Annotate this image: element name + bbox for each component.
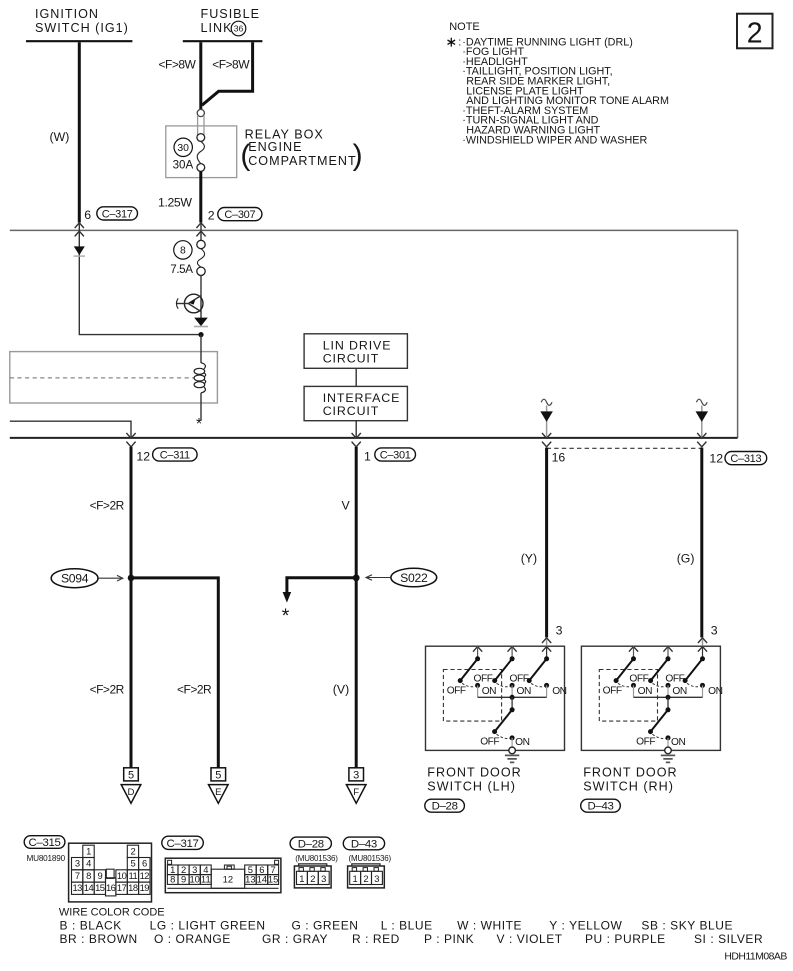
fusible link right wire: [202, 42, 253, 105]
svg-text:OFF: OFF: [510, 674, 529, 685]
bottom switch (LH): [511, 697, 513, 710]
svg-text::: :: [458, 36, 461, 48]
svg-text:FRONT DOOR: FRONT DOOR: [583, 766, 677, 780]
svg-text:15: 15: [95, 882, 105, 893]
svg-text:9: 9: [97, 870, 102, 881]
svg-text:5: 5: [128, 770, 134, 782]
svg-text:<F>2R: <F>2R: [90, 683, 125, 697]
connector D-43 ref: [581, 799, 621, 812]
svg-text:10: 10: [117, 870, 127, 881]
svg-text:3: 3: [353, 770, 359, 782]
svg-text:SWITCH (LH): SWITCH (LH): [427, 780, 516, 794]
ignition switch bar: [26, 40, 132, 42]
svg-text:LINK: LINK: [201, 21, 233, 35]
svg-text:16: 16: [106, 882, 116, 893]
wire to fuse: [200, 223, 202, 241]
ECU box bottom edge (bus 2): [10, 437, 738, 439]
dashed link line: [10, 377, 194, 379]
svg-text:GR : GRAY: GR : GRAY: [262, 932, 328, 946]
svg-text:G : GREEN: G : GREEN: [292, 918, 359, 932]
svg-text:Y : YELLOW: Y : YELLOW: [549, 918, 622, 932]
arrow S094 to junction: [99, 577, 123, 579]
junction dot: [198, 332, 203, 337]
svg-text:1: 1: [364, 449, 371, 463]
wire to coil: [200, 335, 202, 363]
ECU box right edge: [737, 230, 739, 438]
wire to pin 12: [10, 421, 131, 438]
internal wire A with diode to bus2: [546, 406, 548, 438]
svg-text:B : BLACK: B : BLACK: [60, 918, 122, 932]
svg-text:(Y): (Y): [521, 552, 537, 566]
connector D-28 label: [290, 837, 331, 850]
wire Y trunk: [545, 448, 548, 638]
svg-text:LIN DRIVE: LIN DRIVE: [323, 338, 392, 352]
svg-text:30: 30: [177, 143, 189, 154]
svg-text:C–307: C–307: [224, 209, 255, 221]
svg-text:(: (: [240, 139, 250, 172]
svg-text:SI : SILVER: SI : SILVER: [694, 932, 763, 946]
svg-text:(MU801536): (MU801536): [295, 854, 338, 863]
svg-text:OFF: OFF: [480, 737, 499, 748]
svg-text:10: 10: [189, 874, 199, 885]
connector D-43 label: [343, 837, 384, 850]
svg-text:16: 16: [552, 450, 566, 464]
wire W from ignition switch: [78, 42, 81, 222]
wire interface to pin 1: [355, 421, 357, 438]
bottom switch (RH): [667, 697, 669, 710]
svg-text:L : BLUE: L : BLUE: [381, 918, 433, 932]
svg-text:ON: ON: [515, 737, 529, 748]
svg-text:12: 12: [136, 449, 150, 463]
svg-text:3: 3: [75, 858, 80, 869]
internal wire B with diode to bus2: [701, 406, 703, 438]
svg-text:36: 36: [234, 24, 244, 34]
svg-text:CIRCUIT: CIRCUIT: [323, 351, 380, 365]
switch common line (LH): [478, 696, 547, 698]
svg-text:OFF: OFF: [636, 737, 655, 748]
connector C-315 drawing: [69, 843, 152, 902]
connector chevrons at switch top: [702, 637, 704, 646]
svg-text:V: V: [342, 499, 351, 513]
dashed actuation box: [443, 670, 501, 722]
svg-text:(MU801536): (MU801536): [349, 854, 392, 863]
splice S094: [51, 569, 98, 588]
switch column 1 (RH): [629, 647, 638, 652]
svg-text:1: 1: [86, 845, 91, 856]
svg-text:SB : SKY BLUE: SB : SKY BLUE: [641, 918, 733, 932]
svg-text:<F>2R: <F>2R: [177, 683, 212, 697]
svg-text:OFF: OFF: [629, 674, 648, 685]
connector chevrons wire W at bus1: [75, 223, 84, 228]
svg-text:FUSIBLE: FUSIBLE: [201, 7, 261, 21]
switch column 3 (LH): [546, 646, 548, 659]
svg-text:WIRE COLOR CODE: WIRE COLOR CODE: [59, 906, 165, 918]
svg-text:11: 11: [201, 874, 211, 885]
svg-text:4: 4: [86, 858, 91, 869]
wire 1.25W relay to connector: [199, 171, 202, 222]
svg-text:D: D: [128, 787, 135, 798]
svg-text:11: 11: [129, 870, 138, 881]
svg-text:F: F: [353, 787, 359, 798]
branch wire with arrow (DRL): [287, 578, 356, 593]
terminal 3F: [349, 768, 364, 781]
dashed actuation box: [599, 670, 657, 722]
svg-text:15: 15: [268, 874, 278, 885]
svg-text:OFF: OFF: [665, 674, 684, 685]
svg-text:CIRCUIT: CIRCUIT: [323, 404, 380, 418]
svg-text:17: 17: [117, 882, 127, 893]
connector chevrons A at bus2: [542, 433, 551, 438]
svg-text:ON: ON: [552, 686, 566, 697]
terminal 5E: [211, 768, 226, 781]
svg-text:D–43: D–43: [587, 801, 613, 813]
relay box: [166, 126, 237, 178]
branch wire to pin E: [131, 578, 218, 768]
svg-text:PU : PURPLE: PU : PURPLE: [585, 932, 666, 946]
svg-text:HDH11M08AB: HDH11M08AB: [724, 951, 787, 962]
LIN drive circuit box: [304, 334, 407, 369]
terminal 5D: [124, 768, 139, 781]
wire W inside ECU: [79, 223, 201, 335]
svg-text:R : RED: R : RED: [352, 932, 400, 946]
wire 12 trunk: [130, 447, 133, 768]
fusible link element: [197, 109, 204, 116]
svg-text:1.25W: 1.25W: [158, 196, 192, 210]
svg-text:W : WHITE: W : WHITE: [457, 918, 522, 932]
arrow S022 to junction: [366, 577, 390, 579]
svg-text:D–28: D–28: [298, 838, 324, 850]
svg-text:1: 1: [299, 873, 304, 884]
connector chevrons at switch top: [546, 637, 548, 646]
svg-text:3: 3: [711, 624, 718, 638]
svg-text:8: 8: [170, 874, 175, 885]
svg-text:C–315: C–315: [29, 837, 61, 849]
svg-text:<F>8W: <F>8W: [159, 58, 197, 72]
svg-text:*: *: [282, 605, 290, 627]
svg-text:INTERFACE: INTERFACE: [323, 391, 401, 405]
svg-text:13: 13: [245, 874, 255, 885]
svg-text:5: 5: [215, 770, 221, 782]
svg-text:E: E: [215, 787, 221, 798]
svg-text:FRONT DOOR: FRONT DOOR: [427, 766, 521, 780]
connector chevrons pin12 at bus2: [126, 433, 135, 438]
svg-text:IGNITION: IGNITION: [35, 7, 99, 21]
svg-text:): ): [353, 139, 363, 172]
svg-text:*: *: [196, 416, 202, 433]
switch column 2 (LH): [508, 647, 517, 652]
svg-text:13: 13: [72, 882, 82, 893]
ECU box top edge (bus 1): [10, 229, 738, 231]
svg-text:ON: ON: [638, 686, 652, 697]
svg-text:P : PINK: P : PINK: [424, 932, 474, 946]
svg-text:MU801890: MU801890: [27, 854, 66, 863]
svg-text:SWITCH (IG1): SWITCH (IG1): [35, 21, 129, 35]
svg-text:3: 3: [374, 873, 379, 884]
svg-text:NOTE: NOTE: [449, 21, 480, 33]
front door switch (RH) box: [581, 646, 720, 750]
svg-text:V : VIOLET: V : VIOLET: [497, 932, 563, 946]
svg-text:C–317: C–317: [167, 838, 199, 850]
wire G trunk: [700, 448, 703, 638]
wire between circuit boxes: [355, 368, 357, 386]
svg-text:C–313: C–313: [730, 453, 761, 465]
svg-text:SWITCH (RH): SWITCH (RH): [583, 780, 674, 794]
svg-text:6: 6: [142, 858, 147, 869]
connector D-28 ref: [425, 799, 465, 812]
case ground circle (RH): [665, 747, 672, 754]
svg-text:3: 3: [556, 624, 563, 638]
svg-text:2: 2: [363, 873, 368, 884]
dashed link below bus2: [547, 447, 702, 449]
circled 8: [174, 241, 192, 259]
connector C-317 drawing: [165, 858, 281, 893]
svg-text:(G): (G): [677, 552, 695, 566]
switch common line (RH): [634, 696, 703, 698]
svg-text:C–317: C–317: [102, 208, 133, 220]
svg-text:OFF: OFF: [474, 674, 493, 685]
switch column 2 (RH): [663, 647, 672, 652]
svg-text:3: 3: [321, 873, 326, 884]
fuse 7.5A: [197, 240, 205, 248]
svg-text:19: 19: [140, 882, 150, 893]
svg-text:8: 8: [180, 246, 186, 257]
fuse 30A element: [197, 134, 205, 142]
switch column 3 (RH): [702, 646, 704, 659]
svg-text:ON: ON: [708, 686, 722, 697]
arrow down on wire W: [74, 246, 85, 255]
svg-text:LG : LIGHT GREEN: LG : LIGHT GREEN: [150, 918, 266, 932]
svg-text:ON: ON: [672, 686, 686, 697]
front door switch (LH) box: [426, 646, 565, 750]
fusible link bar: [183, 40, 263, 42]
fusible link left wire: [199, 42, 202, 109]
svg-text:C–311: C–311: [160, 449, 190, 461]
svg-text:12: 12: [223, 874, 233, 885]
connector D-43 drawing: [348, 866, 385, 888]
svg-text:14: 14: [257, 874, 267, 885]
svg-text:2: 2: [310, 873, 315, 884]
connector C-317 label: [162, 836, 204, 849]
interface circuit box: [304, 386, 407, 420]
svg-text:D–28: D–28: [432, 801, 458, 813]
wire fuse to transistor: [200, 276, 202, 319]
svg-text:18: 18: [128, 882, 138, 893]
switch column 1 (LH): [473, 647, 482, 652]
ground symbol (LH): [511, 754, 513, 756]
svg-text:OFF: OFF: [603, 685, 622, 696]
wire 1 trunk: [355, 447, 358, 768]
page number 2 box: [737, 14, 773, 49]
svg-text:COMPARTMENT: COMPARTMENT: [248, 154, 356, 168]
connector chevrons B at bus2: [697, 433, 706, 438]
connector chevrons wire IG at bus1: [196, 223, 205, 228]
svg-text:·WINDSHIELD WIPER AND WASHER: ·WINDSHIELD WIPER AND WASHER: [462, 134, 647, 146]
svg-text:6: 6: [84, 208, 91, 222]
diode arrow: [194, 318, 208, 327]
svg-text:2: 2: [208, 208, 215, 222]
svg-text:5: 5: [131, 858, 136, 869]
svg-text:8: 8: [86, 870, 91, 881]
junction dot S094: [128, 575, 135, 582]
svg-text:(V): (V): [333, 683, 349, 697]
svg-text:2: 2: [747, 17, 763, 49]
svg-text:9: 9: [181, 874, 186, 885]
svg-text:D–43: D–43: [351, 838, 377, 850]
svg-text:(W): (W): [50, 130, 70, 144]
connector chevrons pin1 at bus2: [352, 433, 361, 438]
svg-text:14: 14: [84, 882, 94, 893]
svg-text:ON: ON: [671, 737, 685, 748]
svg-text:OFF: OFF: [447, 685, 466, 696]
svg-text:<F>8W: <F>8W: [212, 58, 250, 72]
svg-text:12: 12: [140, 870, 150, 881]
circled 36: [231, 21, 246, 36]
svg-text:12: 12: [709, 451, 723, 465]
relay coil box: [10, 352, 218, 403]
svg-text:ENGINE: ENGINE: [248, 140, 302, 154]
relay coil: [194, 368, 205, 374]
svg-text:<F>2R: <F>2R: [90, 499, 125, 513]
svg-text:O : ORANGE: O : ORANGE: [154, 932, 231, 946]
connector D-28 drawing: [294, 866, 331, 888]
svg-text:ON: ON: [517, 686, 531, 697]
svg-text:30A: 30A: [173, 158, 194, 171]
splice S022: [391, 568, 437, 587]
case ground circle (LH): [509, 747, 516, 754]
transistor: [184, 294, 203, 313]
svg-text:2: 2: [131, 845, 136, 856]
svg-text:7: 7: [75, 870, 80, 881]
junction dot S022: [353, 574, 360, 581]
svg-text:BR : BROWN: BR : BROWN: [60, 932, 138, 946]
svg-text:C–301: C–301: [380, 449, 411, 461]
connector C-315 label: [24, 836, 65, 849]
svg-text:S094: S094: [61, 572, 89, 586]
ground symbol (RH): [667, 754, 669, 756]
svg-text:7.5A: 7.5A: [170, 263, 193, 276]
svg-text:ON: ON: [482, 686, 496, 697]
svg-text:1: 1: [352, 873, 357, 884]
svg-text:S022: S022: [400, 571, 428, 585]
wire below coil: [200, 393, 202, 421]
circled 30: [174, 138, 192, 156]
